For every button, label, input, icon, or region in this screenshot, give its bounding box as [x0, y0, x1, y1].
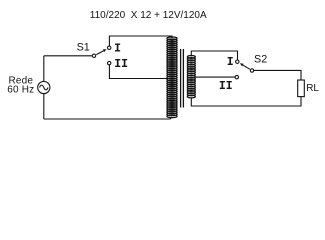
transformer core: [180, 49, 182, 108]
wire: AC source top to top-left corner: [43, 56, 45, 82]
svg-text:110/220 X 12 + 12V/120A: 110/220 X 12 + 12V/120A: [90, 10, 207, 21]
switch S1 pole: [92, 54, 95, 57]
switch S1 arm arrow: [96, 51, 103, 55]
switch S2 contact II: [235, 75, 238, 78]
svg-text:II: II: [219, 80, 233, 93]
switch S2 pole: [250, 69, 253, 72]
wire: secondary top up and right to S2 contact I: [191, 51, 237, 60]
svg-text:S1: S1: [77, 41, 90, 53]
switch S1 contact II: [108, 61, 111, 64]
svg-text:S2: S2: [254, 53, 267, 65]
svg-text:I: I: [227, 56, 234, 69]
switch S2 contact I: [236, 60, 239, 63]
transformer secondary winding: [187, 56, 195, 98]
transformer primary winding: [167, 37, 177, 118]
wire: S1 contact I up and right to primary top: [109, 36, 172, 46]
svg-text:RL: RL: [306, 83, 319, 94]
svg-text:I: I: [114, 43, 121, 56]
AC source (Rede 60 Hz): [38, 81, 50, 93]
svg-text:60 Hz: 60 Hz: [7, 85, 34, 96]
wire: RL bottom left to secondary bottom: [191, 97, 301, 106]
resistor RL: [298, 80, 305, 97]
switch S2 arm arrow: [243, 65, 250, 69]
switch S1 contact I: [108, 46, 111, 49]
wire: top rail to S1 pole: [44, 55, 93, 57]
wire: secondary tap to S2 contact II: [195, 76, 235, 78]
wire: primary bottom connect: [170, 117, 172, 119]
svg-text:II: II: [114, 58, 128, 71]
wire: bottom rail to transformer primary bottom: [44, 118, 171, 120]
wire: S1 contact II down and right to primary tap: [109, 65, 170, 79]
wire: S2 pole right to RL top: [254, 70, 301, 80]
wire: AC source bottom down to bottom rail: [43, 94, 45, 119]
